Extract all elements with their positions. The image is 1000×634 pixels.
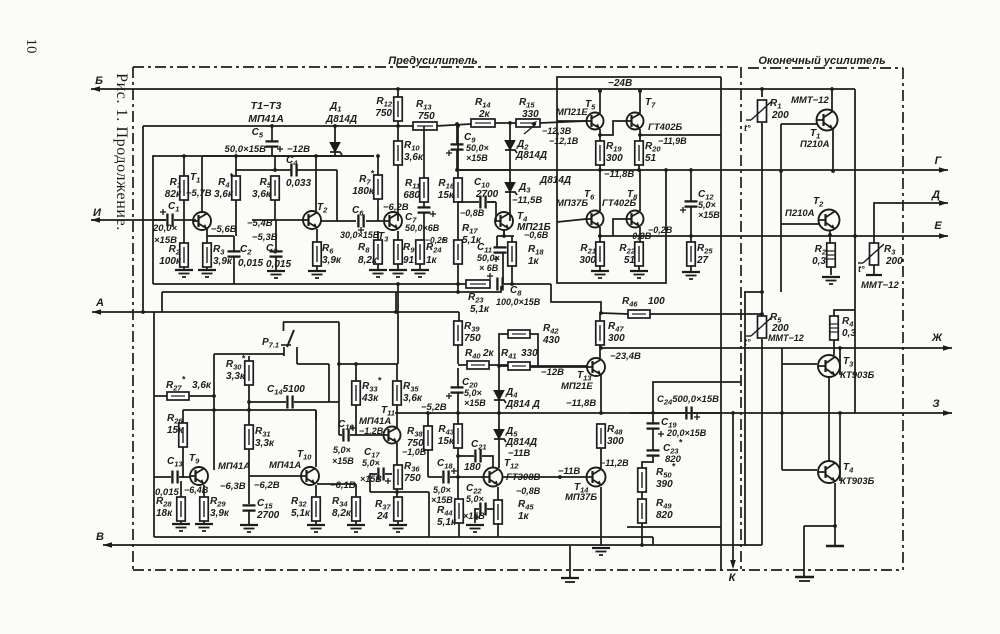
label -0,8В: [460, 208, 485, 218]
svg-text:C145100: C145100: [267, 384, 305, 397]
svg-text:5,0×: 5,0×: [362, 458, 381, 468]
svg-text:5,0×: 5,0×: [698, 200, 717, 210]
wire Д line: [874, 200, 948, 243]
capacitor C15: [243, 498, 280, 521]
svg-text:−1,0В: −1,0В: [402, 447, 427, 457]
node З: [932, 398, 939, 410]
wire: [780, 124, 782, 292]
wire: [458, 364, 467, 366]
wire: [397, 165, 399, 221]
svg-text:−23,4В: −23,4В: [610, 351, 641, 362]
svg-text:−6,1В: −6,1В: [330, 480, 356, 491]
switch P7.1: [262, 322, 294, 356]
wire А line: [92, 309, 459, 315]
svg-text:8,2к: 8,2к: [332, 508, 352, 519]
transistor T1: [190, 172, 211, 230]
wire: [833, 340, 835, 355]
wire Б rail: [91, 86, 855, 92]
node junction: [426, 411, 430, 415]
svg-text:ГТ402Б: ГТ402Б: [602, 198, 636, 209]
wire: [427, 450, 429, 477]
border preamp/output divider: [740, 67, 742, 570]
wire: [690, 207, 692, 242]
label -5,2В: [421, 402, 447, 413]
wire Е line: [598, 233, 948, 239]
label MMT-12: [861, 280, 899, 291]
label -0,6В: [524, 230, 549, 240]
transistor T2 out: [785, 196, 840, 231]
wire: [487, 508, 498, 510]
resistor R10: [394, 140, 424, 165]
svg-text:5,1к: 5,1к: [291, 508, 311, 519]
wire: [509, 191, 511, 221]
wire: [275, 220, 277, 252]
wire: [436, 124, 471, 126]
wire: [180, 521, 182, 524]
svg-text:3,6к: 3,6к: [192, 380, 212, 391]
wire: [457, 345, 459, 364]
node junction: [497, 411, 501, 415]
wire box C24: [653, 382, 741, 413]
wire: [641, 523, 643, 545]
label -11,8В: [604, 169, 634, 180]
wire: [834, 310, 855, 316]
resistor R41: [501, 348, 538, 370]
wire: [540, 121, 586, 123]
resistor R11: [403, 178, 428, 202]
node junction: [598, 133, 602, 137]
wire T6 base: [557, 219, 586, 222]
label -12В: [287, 144, 310, 155]
node junction: [456, 290, 460, 294]
label C24: [657, 394, 719, 407]
wire C6-T3: [366, 220, 383, 222]
node junction: [455, 122, 459, 126]
wire T2 out: [321, 220, 337, 222]
svg-text:300: 300: [607, 436, 624, 447]
wire: [397, 89, 399, 97]
svg-text:−0,6В: −0,6В: [524, 230, 549, 240]
wire: [183, 200, 185, 243]
node junction: [496, 507, 500, 511]
wire: [233, 236, 235, 252]
ground: [198, 270, 216, 277]
resistor R12: [375, 96, 402, 121]
svg-text:5,0×: 5,0×: [464, 388, 483, 398]
svg-text:МП41А: МП41А: [248, 113, 284, 125]
label -24В: [608, 78, 632, 89]
wire main bus: [153, 283, 467, 285]
svg-text:×15В: ×15В: [332, 456, 354, 466]
wire T5 collector: [599, 91, 601, 113]
resistor R28: [156, 496, 185, 521]
svg-text:−12,3В: −12,3В: [542, 126, 572, 136]
wire: [154, 536, 653, 538]
svg-text:МП41А: МП41А: [218, 461, 250, 472]
wire: [397, 264, 399, 269]
wire: [499, 334, 508, 370]
capacitor C20: [446, 377, 486, 408]
wire: [652, 537, 654, 545]
capacitor C22: [463, 483, 486, 521]
wire: [275, 257, 277, 270]
border top (preamp): [133, 66, 741, 68]
node junction: [640, 543, 644, 547]
label -5,7В: [186, 188, 212, 199]
svg-text:Б: Б: [95, 75, 103, 87]
wire: [396, 405, 398, 413]
resistor R39: [454, 321, 481, 345]
diode D2: [505, 139, 547, 161]
svg-text:0,015: 0,015: [266, 259, 291, 270]
svg-text:−11,5В: −11,5В: [512, 195, 542, 206]
svg-text:3,9к: 3,9к: [322, 255, 342, 266]
wire T8 collector: [639, 170, 641, 211]
wire: [652, 428, 654, 451]
svg-text:−11,8В: −11,8В: [566, 398, 596, 409]
resistor R18: [508, 242, 545, 267]
svg-text:Предусилитель: Предусилитель: [388, 55, 477, 67]
wire: [294, 401, 339, 403]
label -11,2В: [600, 458, 629, 468]
wire: [203, 521, 205, 524]
wire T7 collector: [639, 91, 641, 113]
svg-text:100: 100: [648, 296, 665, 307]
node junction: [598, 89, 602, 93]
wire: [761, 89, 763, 97]
wire: [509, 149, 511, 183]
node junction: [830, 87, 834, 91]
node junction: [510, 282, 514, 286]
node junction: [395, 490, 399, 494]
diode D3: [505, 182, 531, 195]
svg-text:МП21Е: МП21Е: [556, 107, 588, 118]
resistor R16: [438, 178, 462, 202]
wire: [495, 122, 516, 124]
node junction: [828, 233, 832, 237]
label Д814Д: [539, 175, 571, 186]
transistor T3 out: [818, 355, 875, 381]
wire: [397, 231, 399, 240]
wire: [599, 345, 601, 358]
svg-text:t°: t°: [858, 264, 865, 274]
wire: [274, 200, 276, 220]
resistor R14: [471, 97, 495, 127]
resistor R50: [638, 462, 676, 493]
svg-text:50,0×15В: 50,0×15В: [225, 144, 267, 155]
wire: [761, 339, 763, 545]
wire: [498, 370, 500, 391]
svg-text:20,0×: 20,0×: [152, 223, 177, 234]
wire box bottom-left: [153, 312, 155, 537]
wire: [639, 227, 641, 242]
node junction: [598, 168, 602, 172]
capacitor C24: [686, 407, 700, 421]
wire: [830, 267, 832, 275]
resistor R33: [352, 376, 382, 406]
diode D1: [325, 101, 357, 155]
border left: [132, 67, 134, 570]
node И: [93, 207, 102, 219]
node Д: [931, 189, 940, 201]
node junction: [247, 400, 251, 404]
svg-text:Д814Д: Д814Д: [325, 114, 357, 125]
resistor R48: [597, 424, 624, 448]
wire: [873, 265, 875, 275]
wire: [355, 521, 357, 524]
svg-text:0,3: 0,3: [842, 328, 856, 339]
resistor R37: [375, 497, 402, 522]
wire T1 emitter bus: [207, 235, 234, 237]
ground chassis 2: [561, 546, 579, 582]
svg-text:300: 300: [608, 333, 625, 344]
resistor R46: [622, 296, 665, 318]
ground: [630, 271, 648, 278]
resistor R8: [358, 240, 382, 266]
svg-text:Д814Д: Д814Д: [515, 150, 547, 161]
capacitor C13: [155, 456, 183, 498]
svg-text:10: 10: [23, 39, 39, 54]
node junction: [396, 87, 400, 91]
resistor R30: [226, 354, 253, 386]
transistor T4 out: [818, 461, 875, 487]
page number 10 (rotated): [23, 39, 39, 54]
resistor R4: [214, 172, 240, 201]
node junction: [270, 124, 274, 128]
label -0,2В: [648, 225, 673, 235]
resistor R20: [635, 141, 662, 165]
svg-text:0,015: 0,015: [238, 258, 263, 269]
wire T10 emitter: [317, 483, 356, 485]
capacitor C10: [474, 177, 499, 209]
resistor R47: [596, 321, 625, 345]
diode D4: [494, 387, 540, 410]
transistor T2: [303, 202, 328, 229]
wire: [428, 476, 442, 478]
node junction: [779, 169, 783, 173]
transistor T4: [495, 211, 551, 233]
wire: [315, 485, 317, 497]
label -11,8В: [566, 398, 596, 409]
node junction: [638, 89, 642, 93]
wire: [499, 365, 508, 367]
label -1,0В: [402, 447, 427, 457]
svg-text:8,2к: 8,2к: [358, 255, 378, 266]
wire: [377, 264, 379, 269]
node Ж: [931, 332, 943, 344]
border right: [902, 68, 904, 570]
wire: [497, 487, 499, 500]
ground: [591, 271, 609, 278]
svg-text:43к: 43к: [361, 393, 379, 404]
svg-text:1к: 1к: [528, 256, 540, 267]
ground: [822, 277, 840, 284]
wire: [457, 284, 459, 292]
wire: [203, 485, 205, 497]
wire: [350, 434, 383, 436]
svg-text:3,9к: 3,9к: [210, 508, 230, 519]
wire: [248, 449, 250, 504]
capacitor C8: [487, 273, 541, 307]
transistor T1 out: [800, 110, 838, 151]
svg-text:−0,2В: −0,2В: [425, 235, 448, 245]
wire: [397, 121, 399, 141]
svg-text:2к: 2к: [482, 348, 495, 359]
svg-text:430: 430: [542, 335, 560, 346]
wire: [693, 412, 721, 414]
svg-text:100,0×15В: 100,0×15В: [496, 297, 541, 307]
svg-text:×15В: ×15В: [360, 474, 382, 484]
label Предусилитель: [388, 55, 477, 67]
svg-text:2700: 2700: [256, 510, 280, 521]
wire T4 down: [503, 230, 505, 237]
svg-text:МП37Б: МП37Б: [556, 198, 588, 209]
node junction: [502, 234, 506, 238]
wire: [600, 121, 626, 135]
transistor T6: [556, 189, 604, 228]
wire: [457, 264, 459, 284]
svg-text:МП41А: МП41А: [269, 460, 301, 471]
svg-text:МП37Б: МП37Б: [565, 492, 597, 503]
svg-text:30,0×15В: 30,0×15В: [340, 230, 380, 240]
ground: [172, 524, 190, 531]
wire: [428, 492, 430, 537]
label -0,2В: [425, 235, 448, 245]
wire: [161, 292, 163, 312]
wire: [804, 525, 835, 527]
capacitor C5: [225, 127, 283, 155]
border top (output amp): [748, 67, 903, 69]
wire: [377, 231, 379, 240]
wire: [423, 126, 425, 178]
ground: [240, 525, 258, 532]
wire: [761, 123, 763, 316]
wire: [396, 489, 398, 497]
resistor R40: [465, 348, 495, 369]
node А: [95, 297, 104, 309]
wire: [551, 284, 601, 313]
svg-text:5,1к: 5,1к: [437, 517, 457, 528]
resistor R23: [466, 280, 490, 315]
wire: [334, 151, 336, 156]
node junction: [212, 394, 216, 398]
wire T13 base: [530, 366, 587, 368]
resistor R19: [596, 141, 623, 165]
wire: [504, 283, 551, 285]
wire: [180, 481, 182, 497]
wire: [600, 375, 602, 413]
node junction: [598, 234, 602, 238]
wire trimmer arrow: [524, 121, 537, 134]
svg-text:15к: 15к: [438, 436, 455, 447]
svg-text:300: 300: [606, 153, 623, 164]
wire T7 emitter line: [640, 129, 721, 135]
wire: [316, 266, 318, 270]
svg-text:−5,6В: −5,6В: [211, 224, 237, 235]
svg-text:−12В: −12В: [541, 367, 564, 378]
node junction: [731, 411, 735, 415]
wire Ж line: [600, 345, 952, 351]
wire: [397, 521, 399, 524]
wire: [297, 169, 337, 171]
capacitor C3: [266, 243, 291, 270]
resistor R49: [638, 498, 673, 523]
node junction: [212, 408, 216, 412]
ground: [308, 271, 326, 278]
capacitor C21: [464, 439, 487, 473]
resistor R1: [165, 176, 188, 200]
wire: [423, 213, 425, 240]
ground: [389, 525, 407, 532]
node junction: [337, 362, 341, 366]
resistor R21: [579, 242, 604, 266]
label -0,3В: [627, 231, 652, 241]
svg-text:91: 91: [403, 255, 415, 266]
wire: [336, 170, 338, 221]
node junction: [638, 234, 642, 238]
label -11,5В: [512, 195, 542, 206]
wire: [338, 322, 340, 435]
wire: [509, 123, 511, 141]
svg-text:51: 51: [645, 153, 657, 164]
svg-text:750: 750: [464, 333, 481, 344]
wire T2 base: [781, 223, 819, 225]
transistor T9: [189, 453, 208, 485]
wire: [450, 476, 483, 478]
wire: [248, 385, 250, 425]
wire: [370, 474, 377, 492]
wire: [498, 438, 500, 468]
svg-text:ММТ−12: ММТ−12: [861, 280, 899, 291]
wire T2 collector: [315, 156, 317, 212]
svg-text:МП21Е: МП21Е: [561, 381, 593, 392]
node junction: [456, 282, 460, 286]
ground: [389, 270, 407, 277]
resistor R5: [252, 176, 279, 200]
wire И input: [91, 217, 166, 223]
svg-text:Д814Д: Д814Д: [505, 437, 537, 448]
resistor R6: [313, 242, 342, 266]
wire: [457, 393, 459, 413]
wire: [638, 165, 640, 170]
svg-text:100к: 100к: [159, 256, 182, 267]
wire: [248, 356, 250, 361]
wire T3 base: [782, 363, 817, 365]
wire: [690, 266, 692, 271]
label -12,1В: [549, 136, 579, 146]
wire: [235, 156, 237, 176]
svg-text:3,6к: 3,6к: [214, 189, 234, 200]
svg-text:330: 330: [521, 348, 538, 359]
wire: [489, 364, 508, 366]
thermistor R5 out: [744, 312, 804, 347]
svg-text:5,0×: 5,0×: [466, 494, 485, 504]
resistor R35: [393, 381, 423, 405]
wire: [296, 347, 298, 364]
svg-text:В: В: [96, 531, 104, 543]
wire T3 emitter: [839, 348, 841, 375]
diode D5: [494, 426, 537, 448]
wire: [720, 77, 722, 571]
ground: [466, 525, 484, 532]
wire: [828, 377, 830, 461]
svg-text:2к: 2к: [478, 109, 491, 120]
wire: [334, 126, 336, 143]
resistor R2: [159, 243, 188, 267]
wire: [854, 236, 856, 413]
svg-text:50,0×6В: 50,0×6В: [405, 223, 440, 233]
svg-text:З: З: [932, 398, 939, 410]
